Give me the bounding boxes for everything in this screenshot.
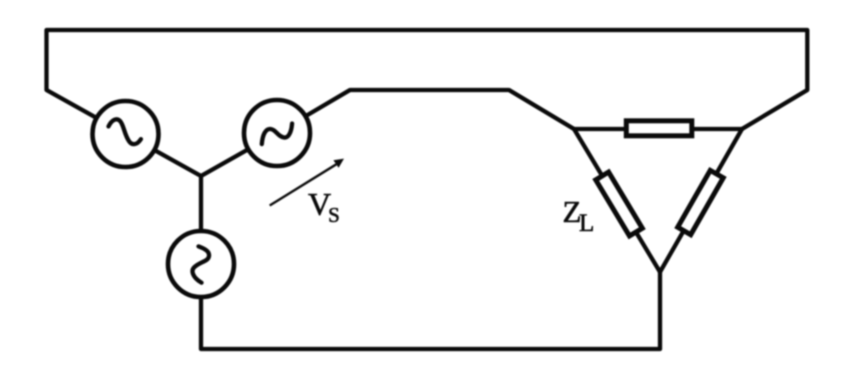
ac source V2 bbox=[244, 100, 310, 166]
resistor Z top (delta top side) bbox=[626, 121, 692, 136]
wire delta top side bbox=[574, 127, 742, 131]
wire from source V1 to wye node and down to source V3 bbox=[156, 151, 201, 229]
label Vs bbox=[308, 186, 340, 223]
resistor Z_L (delta left side) bbox=[596, 172, 643, 236]
ac source V3 bbox=[168, 231, 234, 297]
wire from source V2 up to mid rail and to delta left vertex bbox=[307, 90, 574, 129]
wire bottom return from delta to source V3 bbox=[201, 272, 660, 349]
wire delta right side bbox=[660, 129, 742, 272]
arrow Vs phase voltage bbox=[270, 159, 344, 206]
label ZL bbox=[563, 194, 595, 230]
wire top rail with left and right drops bbox=[47, 30, 808, 129]
resistor Z right (delta right side) bbox=[678, 170, 724, 234]
wire delta left side bbox=[574, 129, 660, 272]
ac source V1 bbox=[93, 101, 159, 167]
wire from wye node to source V2 bbox=[201, 150, 247, 176]
